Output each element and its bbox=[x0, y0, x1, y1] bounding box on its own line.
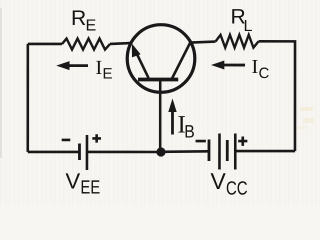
label plus of V_EE bbox=[92, 134, 101, 142]
label R_E bbox=[73, 11, 96, 31]
transistor Q1 base bar bbox=[138, 78, 178, 82]
label plus of V_CC bbox=[238, 136, 247, 145]
wire: top-left horizontal from left corner to R_E bbox=[28, 43, 62, 46]
label I_E bbox=[96, 61, 112, 79]
label I_B bbox=[178, 116, 194, 137]
label V_EE bbox=[66, 173, 100, 193]
wire: junction node to V_EE positive plate bbox=[87, 151, 161, 154]
label minus of V_EE bbox=[62, 139, 71, 142]
battery V_CC plate long (inner) bbox=[218, 134, 221, 170]
wire: transistor collector terminal to R_L bbox=[191, 42, 216, 43]
transistor Q1 circle bbox=[127, 25, 195, 93]
battery V_EE plate long (+) bbox=[86, 135, 89, 170]
battery V_CC plate short bbox=[226, 140, 229, 161]
label V_CC bbox=[211, 173, 248, 195]
wire: left vertical side bbox=[26, 44, 29, 152]
wire: bottom-right from right side to V_CC positive plate bbox=[236, 150, 295, 153]
battery V_CC plate long (+ outer) bbox=[234, 134, 237, 170]
arrow I_C bbox=[211, 61, 245, 70]
transistor Q1 emitter lead with arrowhead bbox=[132, 43, 149, 78]
label R_L bbox=[232, 9, 252, 31]
node: junction dot at base/battery bus bbox=[156, 147, 165, 156]
wire: R_L to top-right corner and down right side bbox=[258, 41, 295, 151]
wire: V_EE negative plate to bottom-left corner bbox=[28, 151, 79, 154]
battery V_EE plate short (-) bbox=[78, 143, 81, 160]
battery V_CC plate short (- side) bbox=[208, 140, 211, 162]
label I_C bbox=[252, 60, 269, 78]
wire: transistor base lead down to junction bbox=[159, 81, 162, 152]
arrow I_B bbox=[168, 99, 176, 135]
wire: R_E to transistor emitter terminal bbox=[110, 43, 132, 44]
arrow I_E bbox=[56, 61, 88, 70]
wire: V_CC negative plate to junction node bbox=[161, 150, 209, 153]
resistor R_L bbox=[216, 35, 259, 48]
label minus of V_CC bbox=[196, 140, 206, 143]
transistor Q1 collector lead bbox=[172, 42, 191, 79]
resistor R_E bbox=[62, 39, 110, 50]
